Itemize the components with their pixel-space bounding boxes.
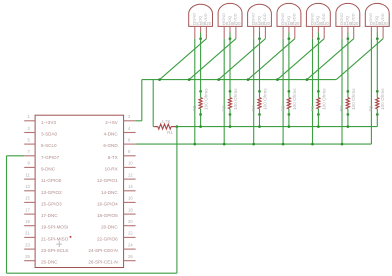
junction R1 right / DQ node	[176, 125, 179, 128]
IC pin label 23-SPI-SCLK	[41, 248, 70, 253]
svg-text:DS18B20: DS18B20	[193, 21, 212, 26]
sensor U2 label DS18B20	[193, 21, 212, 26]
pin number 10	[128, 161, 133, 166]
svg-text:8-TX: 8-TX	[108, 155, 118, 160]
pin number 6	[128, 137, 131, 142]
junction DQ bus sensor 3	[258, 125, 261, 128]
svg-text:18-GPIO5: 18-GPIO5	[97, 213, 118, 218]
junction GND bus sensor 3	[252, 143, 255, 146]
sensor U5 label GND	[280, 13, 285, 22]
svg-text:19-SPI-MOSI: 19-SPI-MOSI	[41, 225, 68, 230]
IC pin label 9-DNC	[41, 166, 56, 171]
resistor R6 100 Ohms	[317, 91, 320, 114]
sensor U5 label DQ	[286, 16, 291, 22]
IC right pin stub (pin 12)	[124, 178, 136, 180]
junction resistor R4 bottom	[258, 113, 261, 116]
svg-text:DS18B20: DS18B20	[281, 21, 300, 26]
junction DQ pin end	[199, 37, 202, 40]
pin number 8	[128, 149, 131, 154]
svg-text:100 Ohms: 100 Ohms	[380, 88, 385, 110]
label 4.7K	[161, 119, 170, 124]
pin number 18	[128, 207, 133, 212]
+5V bus horizontal	[142, 79, 336, 81]
svg-text:DS18B20: DS18B20	[223, 21, 242, 26]
sensor U4 label VDD	[262, 13, 267, 22]
pin number 25	[25, 254, 30, 259]
pin number 11	[25, 172, 30, 177]
sensor U4 pin 2 DQ stub	[259, 26, 261, 32]
label R3	[221, 105, 226, 111]
svg-text:19: 19	[25, 219, 30, 224]
wire DQ to resistor	[317, 39, 319, 92]
wire GPIO7 left vertical	[6, 156, 8, 273]
sensor U6 DS18B20 TO-92 body	[306, 3, 330, 26]
svg-text:100 Ohms: 100 Ohms	[204, 88, 209, 110]
IC pin label 6-GND	[103, 143, 118, 148]
svg-text:4-DNC: 4-DNC	[104, 132, 119, 137]
svg-text:1-+3V3: 1-+3V3	[41, 120, 56, 125]
sensor U3 label GND	[221, 13, 226, 22]
IC left pin stub (pin 19)	[24, 225, 35, 227]
svg-text:8: 8	[128, 149, 131, 154]
svg-text:15-GPIO3: 15-GPIO3	[41, 201, 62, 206]
resistor R7 100 Ohms	[346, 91, 349, 114]
svg-text:7-GPIO7: 7-GPIO7	[41, 155, 60, 160]
svg-text:R8: R8	[369, 105, 374, 111]
svg-text:9-DNC: 9-DNC	[41, 166, 56, 171]
svg-text:1: 1	[27, 114, 30, 119]
wire pin2 +5V to riser	[136, 120, 142, 122]
wire VDD diagonal sensor 5	[277, 39, 324, 80]
junction resistor R4 top	[258, 90, 261, 93]
wire DQ to resistor	[347, 39, 349, 92]
IC pin label 10-RX	[105, 166, 118, 171]
svg-text:DS18B20: DS18B20	[252, 21, 271, 26]
pin number 12	[128, 172, 133, 177]
svg-text:13-GPIO2: 13-GPIO2	[41, 190, 62, 195]
sensor U8 label VDD	[380, 13, 385, 22]
pin number 24	[128, 242, 133, 247]
sensor U4 DS18B20 TO-92 body	[248, 4, 272, 26]
svg-text:5-SCL0: 5-SCL0	[41, 143, 57, 148]
sensor U5 DS18B20 TO-92 body	[277, 3, 301, 26]
wire resistor to DQ bus	[229, 115, 231, 127]
IC right pin stub (pin 20)	[124, 225, 136, 227]
IC pin label 13-GPIO2	[41, 190, 62, 195]
sensor U7 pin 1 GND stub	[341, 26, 343, 38]
IC pin label 15-GPIO3	[41, 201, 62, 206]
svg-text:17-DNC: 17-DNC	[41, 213, 58, 218]
sensor U4 pin 1 GND stub	[253, 26, 255, 38]
DQ bus horizontal	[177, 126, 377, 128]
svg-text:2: 2	[128, 114, 131, 119]
sensor U6 label DQ	[315, 16, 320, 22]
sensor U7 label VDD	[351, 13, 356, 22]
IC left pin stub (pin 1)	[24, 120, 35, 122]
junction DQ pin end	[347, 37, 350, 40]
wire VDD diagonal sensor 3	[219, 39, 266, 80]
pin number 3	[27, 126, 30, 131]
wire +5V riser vertical	[141, 80, 143, 121]
IC left pin stub (pin 21)	[24, 236, 35, 238]
svg-text:100 Ohms: 100 Ohms	[262, 88, 267, 110]
svg-text:22: 22	[128, 231, 133, 236]
resistor R2 100 Ohms	[199, 91, 202, 114]
svg-text:17: 17	[25, 207, 30, 212]
sensor U4 label DQ	[256, 16, 261, 22]
wire DQ to resistor	[229, 39, 231, 92]
sensor U2 label DQ	[197, 16, 202, 22]
sensor U2 label VDD	[203, 13, 208, 22]
wire resistor to DQ bus	[200, 115, 202, 127]
IC right pin stub (pin 8)	[124, 155, 136, 157]
IC left pin stub (pin 17)	[24, 213, 35, 215]
svg-text:21: 21	[25, 231, 30, 236]
IC right pin stub (pin 24)	[124, 248, 136, 250]
svg-text:R6: R6	[310, 105, 315, 111]
label 100 Ohms	[233, 88, 238, 110]
sensor U5 label DS18B20	[281, 21, 300, 26]
pin number 17	[25, 207, 30, 212]
svg-text:100 Ohms: 100 Ohms	[351, 88, 356, 110]
sensor U2 pin 3 VDD stub	[205, 26, 207, 38]
svg-text:5: 5	[27, 137, 30, 142]
IC pin label 1-+3V3	[41, 120, 56, 125]
junction DQ pin end	[258, 37, 261, 40]
junction GND bus sensor 2	[223, 143, 226, 146]
IC right pin stub (pin 6)	[124, 143, 136, 145]
svg-text:3: 3	[27, 126, 30, 131]
sensor U8 pin 2 DQ stub	[376, 26, 378, 32]
svg-text:18: 18	[128, 207, 133, 212]
IC pin label 7-GPIO7	[41, 155, 60, 160]
IC right pin stub (pin 16)	[124, 201, 136, 203]
junction resistor R5 top	[288, 90, 291, 93]
resistor R1 4.7K	[153, 124, 177, 129]
wire DQ to resistor	[259, 39, 261, 92]
svg-text:R4: R4	[251, 105, 256, 111]
sensor U3 DS18B20 TO-92 body	[218, 3, 242, 26]
IC left pin stub (pin 25)	[24, 260, 35, 262]
sensor U3 label VDD	[233, 13, 238, 22]
wire DQ pin segment	[200, 33, 202, 39]
svg-text:100 Ohms: 100 Ohms	[321, 88, 326, 110]
junction +5V bus sensor 4	[247, 78, 250, 81]
svg-text:R2: R2	[192, 105, 197, 111]
svg-text:7: 7	[27, 149, 30, 154]
label 100 Ohms	[204, 88, 209, 110]
svg-text:100 Ohms: 100 Ohms	[233, 88, 238, 110]
wire DQ pin segment	[317, 33, 319, 39]
IC left pin stub (pin 23)	[24, 248, 35, 250]
IC pin label 19-SPI-MOSI	[41, 225, 68, 230]
svg-text:13: 13	[25, 184, 30, 189]
pin number 2	[128, 114, 131, 119]
svg-text:10: 10	[128, 161, 133, 166]
junction resistor R6 bottom	[317, 113, 320, 116]
svg-text:20-DNC: 20-DNC	[101, 225, 118, 230]
wire GPIO7 bottom horizontal	[7, 272, 177, 274]
svg-text:22-GPIO6: 22-GPIO6	[97, 236, 118, 241]
IC right pin stub (pin 10)	[124, 166, 136, 168]
sensor U6 pin 3 VDD stub	[323, 26, 325, 38]
wire VDD diagonal sensor 2	[189, 39, 236, 80]
wire GND vertical sensor 3	[253, 39, 255, 144]
junction resistor R3 top	[229, 90, 232, 93]
label R1	[167, 130, 173, 135]
IC pin label 16-GPIO4	[97, 201, 118, 206]
junction DQ bus sensor 2	[229, 125, 232, 128]
sensor U7 label DQ	[345, 16, 350, 22]
junction DQ bus sensor 6	[347, 125, 350, 128]
sensor U5 pin 1 GND stub	[282, 26, 284, 38]
svg-text:16: 16	[128, 196, 133, 201]
svg-text:R7: R7	[339, 105, 344, 111]
wire DQ pin segment	[259, 33, 261, 39]
svg-text:3-SDA0: 3-SDA0	[41, 132, 58, 137]
sensor U8 pin 1 GND stub	[370, 26, 372, 38]
svg-text:6: 6	[128, 137, 131, 142]
sensor U2 pin 1 GND stub	[194, 26, 196, 38]
label R5	[280, 105, 285, 111]
junction +5V bus sensor 2	[188, 78, 191, 81]
svg-text:26-SPI-CE1-N: 26-SPI-CE1-N	[88, 260, 117, 265]
svg-text:16-GPIO4: 16-GPIO4	[97, 201, 118, 206]
sensor U7 pin 3 VDD stub	[353, 26, 355, 38]
pin number 7	[27, 149, 30, 154]
IC pin label 24-SPI-CE0-N	[88, 248, 117, 253]
svg-text:R5: R5	[280, 105, 285, 111]
pin number 20	[128, 219, 133, 224]
pin number 23	[25, 242, 30, 247]
wire VDD diagonal sensor 6	[307, 39, 354, 80]
junction resistor R2 bottom	[199, 113, 202, 116]
IC origin crosshair mark	[56, 241, 62, 247]
IC left pin stub (pin 3)	[24, 132, 35, 134]
sensor U3 label DS18B20	[223, 21, 242, 26]
junction DQ bus sensor 1	[199, 125, 202, 128]
svg-text:11: 11	[25, 172, 30, 177]
wire resistor to DQ bus	[376, 115, 378, 127]
pin number 15	[25, 196, 30, 201]
svg-text:2-+5V: 2-+5V	[105, 120, 118, 125]
IC left pin stub (pin 11)	[24, 178, 35, 180]
IC pin label 26-SPI-CE1-N	[88, 260, 117, 265]
IC red marker dot near pin 21	[70, 236, 72, 238]
pin number 13	[25, 184, 30, 189]
junction DQ bus sensor 4	[288, 125, 291, 128]
wire resistor to DQ bus	[288, 115, 290, 127]
wire resistor to DQ bus	[347, 115, 349, 127]
svg-text:DS18B20: DS18B20	[311, 21, 330, 26]
sensor U7 label GND	[339, 13, 344, 22]
sensor U7 label DS18B20	[340, 21, 359, 26]
IC left pin stub (pin 5)	[24, 143, 35, 145]
IC pin label 21-SPI-MISO	[41, 236, 69, 241]
IC pin label 17-DNC	[41, 213, 58, 218]
IC left pin stub (pin 13)	[24, 190, 35, 192]
pin number 22	[128, 231, 133, 236]
svg-text:21-SPI-MISO: 21-SPI-MISO	[41, 236, 69, 241]
IC pin label 14-DNC	[101, 190, 118, 195]
IC U1 Raspberry Pi 26-pin GPIO header	[35, 115, 124, 267]
label 100 Ohms	[380, 88, 385, 110]
sensor U8 DS18B20 TO-92 body	[365, 3, 389, 26]
junction resistor R8 bottom	[376, 113, 379, 116]
svg-text:9: 9	[27, 161, 30, 166]
IC right pin stub (pin 22)	[124, 236, 136, 238]
IC right pin stub (pin 26)	[124, 260, 136, 262]
wire VDD diagonal sensor 7	[336, 39, 383, 80]
label R6	[310, 105, 315, 111]
IC pin label 25-DNC	[41, 260, 58, 265]
wire GND vertical sensor 4	[282, 39, 284, 144]
sensor U2 DS18B20 TO-92 body	[189, 4, 213, 26]
wire DQ to resistor	[288, 39, 290, 92]
label R4	[251, 105, 256, 111]
sensor U8 pin 3 VDD stub	[382, 26, 384, 38]
pin number 5	[27, 137, 30, 142]
sensor U6 pin 2 DQ stub	[317, 26, 319, 32]
wire GND vertical sensor 5	[312, 39, 314, 144]
wire VDD diagonal sensor 1	[160, 39, 207, 80]
label R2	[192, 105, 197, 111]
svg-text:R1: R1	[167, 130, 173, 135]
pin number 4	[128, 126, 131, 131]
sensor U6 pin 1 GND stub	[312, 26, 314, 38]
junction resistor R3 bottom	[229, 113, 232, 116]
svg-text:25-DNC: 25-DNC	[41, 260, 58, 265]
svg-text:4: 4	[128, 126, 131, 131]
junction GND bus sensor 5	[311, 143, 314, 146]
pin number 1	[27, 114, 30, 119]
svg-text:15: 15	[25, 196, 30, 201]
svg-text:11-GPIO0: 11-GPIO0	[41, 178, 62, 183]
svg-text:10-RX: 10-RX	[105, 166, 118, 171]
sensor U3 pin 3 VDD stub	[235, 26, 237, 38]
sensor U6 label GND	[309, 13, 314, 22]
junction DQ pin end	[288, 37, 291, 40]
sensor U5 label VDD	[292, 13, 297, 22]
IC pin label 20-DNC	[101, 225, 118, 230]
sensor U2 pin 2 DQ stub	[200, 26, 202, 32]
resistor R3 100 Ohms	[228, 91, 231, 114]
pin number 14	[128, 184, 133, 189]
svg-text:24-SPI-CE0-N: 24-SPI-CE0-N	[88, 248, 117, 253]
svg-text:14-DNC: 14-DNC	[101, 190, 118, 195]
IC right pin stub (pin 18)	[124, 213, 136, 215]
IC pin label 12-GPIO1	[97, 178, 118, 183]
wire GND vertical sensor 6	[341, 39, 343, 144]
IC pin label 11-GPIO0	[41, 178, 62, 183]
sensor U8 label DQ	[374, 16, 379, 22]
wire GND vertical sensor 7	[370, 39, 372, 144]
wire GND vertical sensor 2	[223, 39, 225, 144]
pin number 21	[25, 231, 30, 236]
sensor U4 label GND	[251, 13, 256, 22]
svg-text:23: 23	[25, 242, 30, 247]
wire DQ pin segment	[376, 33, 378, 39]
sensor U8 label DS18B20	[370, 21, 389, 26]
sensor U5 pin 3 VDD stub	[294, 26, 296, 38]
pin number 9	[27, 161, 30, 166]
resistor R4 100 Ohms	[258, 91, 261, 114]
sensor U3 pin 2 DQ stub	[229, 26, 231, 32]
sensor U3 pin 1 GND stub	[223, 26, 225, 38]
svg-text:14: 14	[128, 184, 133, 189]
sensor U4 pin 3 VDD stub	[264, 26, 266, 38]
IC pin label 5-SCL0	[41, 143, 57, 148]
svg-text:20: 20	[128, 219, 133, 224]
junction resistor R7 bottom	[347, 113, 350, 116]
svg-text:12: 12	[128, 172, 133, 177]
junction resistor R2 top	[199, 90, 202, 93]
IC right pin stub (pin 4)	[124, 132, 136, 134]
wire pin6 GND to bus	[136, 143, 372, 145]
IC left pin stub (pin 15)	[24, 201, 35, 203]
sensor U3 label DQ	[227, 16, 232, 22]
IC left pin stub (pin 7)	[24, 155, 35, 157]
label R7	[339, 105, 344, 111]
junction resistor R5 bottom	[288, 113, 291, 116]
junction +5V bus sensor 5	[276, 78, 279, 81]
svg-text:R3: R3	[221, 105, 226, 111]
pin number 26	[128, 254, 133, 259]
wire feeder vertical +5V down to R1	[152, 80, 154, 127]
junction resistor R7 top	[347, 90, 350, 93]
label R8	[369, 105, 374, 111]
IC right pin stub (pin 2)	[124, 120, 136, 122]
pin number 19	[25, 219, 30, 224]
junction DQ pin end	[229, 37, 232, 40]
junction GND bus sensor 1	[193, 143, 196, 146]
IC pin label 18-GPIO5	[97, 213, 118, 218]
sensor U5 pin 2 DQ stub	[288, 26, 290, 32]
svg-text:23-SPI-SCLK: 23-SPI-SCLK	[41, 248, 70, 253]
wire DQ pin segment	[347, 33, 349, 39]
label 100 Ohms	[262, 88, 267, 110]
wire GPIO7 riser vertical	[176, 127, 178, 274]
sensor U6 label DS18B20	[311, 21, 330, 26]
IC pin label 8-TX	[108, 155, 118, 160]
junction DQ pin end	[376, 37, 379, 40]
junction +5V bus sensor 1	[158, 78, 161, 81]
junction +5V bus sensor 6	[306, 78, 309, 81]
wire resistor to DQ bus	[317, 115, 319, 127]
wire DQ pin segment	[229, 33, 231, 39]
junction resistor R8 top	[376, 90, 379, 93]
wire DQ pin segment	[288, 33, 290, 39]
IC pin label 2-+5V	[105, 120, 118, 125]
svg-text:12-GPIO1: 12-GPIO1	[97, 178, 118, 183]
svg-text:25: 25	[25, 254, 30, 259]
IC pin label 22-GPIO6	[97, 236, 118, 241]
junction DQ pin end	[317, 37, 320, 40]
sensor U2 label GND	[192, 13, 197, 22]
label 100 Ohms	[292, 88, 297, 110]
svg-text:DS18B20: DS18B20	[340, 21, 359, 26]
sensor U8 label GND	[368, 13, 373, 22]
sensor U7 DS18B20 TO-92 body	[336, 3, 360, 26]
junction GND bus sensor 6	[341, 143, 344, 146]
svg-text:26: 26	[128, 254, 133, 259]
junction GND bus sensor 4	[282, 143, 285, 146]
svg-text:DS18B20: DS18B20	[370, 21, 389, 26]
wire resistor to DQ bus	[259, 115, 261, 127]
resistor R5 100 Ohms	[287, 91, 290, 114]
sensor U4 label DS18B20	[252, 21, 271, 26]
label 100 Ohms	[351, 88, 356, 110]
